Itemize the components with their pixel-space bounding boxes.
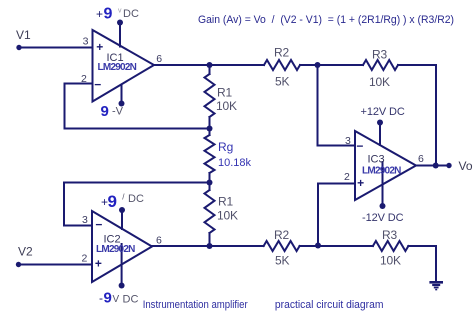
wire IC1 output row to R2 [154,64,264,66]
svg-text:−: − [94,78,101,92]
node Vo junction [433,163,439,169]
svg-text:Instrumentation amplifier: Instrumentation amplifier [143,299,248,311]
node IC1 +V dot [117,20,123,26]
svg-text:2: 2 [82,253,88,265]
wire IC1 +V power pin [119,23,121,47]
resistor R2 bottom zigzag [264,241,300,251]
node V2 terminal dot [16,262,21,267]
svg-text:3: 3 [83,35,89,47]
wire V1 input [19,47,93,49]
wire IC3 pin2 to bottom node [318,184,355,246]
svg-text:10K: 10K [217,209,238,223]
wire IC2 +V power pin [121,210,123,229]
svg-text:−: − [95,218,102,232]
svg-text:6: 6 [156,235,162,247]
wire node C feedback to IC2 pin3 [64,183,210,226]
wire IC1 pin2 feedback loop [65,84,210,129]
wire IC3 +V power pin [379,123,381,145]
ground [429,282,443,289]
svg-text:R1: R1 [217,86,232,100]
wire IC3 output to Vo [416,165,449,167]
wire R2 bottom to R3 bottom [300,245,373,247]
op-amp U2 IC2 triangle [92,211,152,282]
resistor R1 upper zigzag [205,74,215,117]
resistor Rg zigzag [205,135,215,173]
svg-text:−: − [356,139,363,153]
svg-text:5K: 5K [275,75,289,89]
svg-text:LM2902N: LM2902N [96,244,135,255]
svg-text:3: 3 [345,135,351,147]
svg-text:V1: V1 [16,28,31,42]
svg-text:9: 9 [101,103,109,120]
wire IC3 -V power pin [382,162,384,205]
svg-text:V: V [113,294,120,305]
wire R3 bottom to ground [408,246,436,282]
node IC1 -V dot [119,101,125,107]
resistor R3 top zigzag [363,60,398,70]
node IC3 -V dot [380,203,386,209]
resistor R2 top zigzag [264,60,300,70]
svg-text:10K: 10K [216,99,237,113]
wire V2 input [19,264,93,266]
svg-text:+12V DC: +12V DC [361,106,405,118]
wire IC1 -V power pin [121,86,123,104]
svg-text:v: v [118,8,122,15]
svg-text:9: 9 [108,192,117,211]
svg-text:IC3: IC3 [368,154,385,166]
svg-text:R3: R3 [372,48,387,62]
resistor R1 lower zigzag [205,190,215,233]
wire R2 to R3 top [300,64,363,66]
wire IC2 output row [152,245,264,247]
wire R1 column top lead [209,65,211,74]
op-amp U3 IC3 triangle [355,131,416,200]
svg-text:DC: DC [123,294,139,306]
svg-text:+: + [357,176,364,190]
resistor R3 bottom zigzag [373,241,408,251]
svg-text:R2: R2 [274,228,289,242]
node Vo terminal dot [446,163,451,168]
svg-text:+: + [95,257,102,271]
node junction R2/R3 top [315,62,321,68]
svg-text:5K: 5K [275,254,289,268]
svg-text:10K: 10K [380,254,401,268]
svg-text:2: 2 [344,171,350,183]
svg-text:10.18k: 10.18k [218,157,252,169]
svg-text:9: 9 [104,290,112,307]
svg-text:Vo: Vo [459,159,473,173]
svg-text:Rg: Rg [218,140,233,154]
svg-text:10K: 10K [369,75,390,89]
op-amp U1 IC1 triangle [93,30,155,102]
node junction R2/R3 bottom [315,243,321,249]
wire R1 lower to bottom row [209,233,211,246]
svg-text:6: 6 [156,53,162,65]
svg-text:R2: R2 [274,46,289,60]
node V1 terminal dot [16,45,21,50]
svg-text:3: 3 [82,214,88,226]
svg-text:2: 2 [81,73,87,85]
node D junction IC2out/R1 [207,243,213,249]
wire IC2 -V power pin [121,244,123,285]
svg-text:practical circuit diagram: practical circuit diagram [275,299,384,311]
svg-text:R3: R3 [382,228,397,242]
wire R1 to node B [209,117,211,135]
wire R3 top to right edge down to Vo node [398,65,436,166]
node IC2 -V dot [119,283,125,289]
node C junction Rg/R1 [207,180,213,186]
svg-text:Gain (Av) = Vo / (V2 - V1): Gain (Av) = Vo / (V2 - V1) = (1 + (2R1/R… [198,14,454,26]
svg-text:-12V DC: -12V DC [362,212,404,224]
wire Rg to node C [209,173,211,190]
svg-text:DC: DC [128,193,144,205]
svg-text:DC: DC [123,8,139,20]
node IC2 +V dot [119,207,125,213]
svg-text:LM2902N: LM2902N [98,62,137,73]
svg-text:9: 9 [104,6,113,23]
svg-text:+: + [96,40,103,54]
svg-text:-V: -V [112,106,124,118]
svg-text:-: - [99,291,103,305]
svg-text:R1: R1 [218,195,233,209]
svg-text:+: + [96,7,103,21]
svg-text:V2: V2 [18,245,33,259]
node IC3 +V dot [377,120,383,126]
svg-text:LM2902N: LM2902N [362,166,401,177]
node B junction R1/Rg [207,126,213,132]
wire node to IC3 pin3 [318,65,356,146]
node A junction IC1out/R1 [207,62,213,68]
svg-text:6: 6 [418,153,424,165]
